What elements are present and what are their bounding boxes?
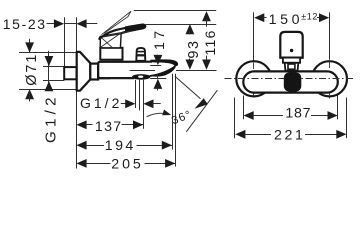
dimension 221 overall width — [234, 98, 236, 139]
dimension O71 escutcheon diameter — [29, 39, 31, 53]
mixer body front view — [243, 71, 337, 92]
dimension 93 height — [186, 24, 195, 34]
aerator extension lines — [135, 80, 137, 108]
dimension 150 plus-minus 12 connection spacing — [253, 12, 255, 61]
svg-text:205: 205 — [111, 156, 143, 172]
lever handle side view — [99, 25, 145, 39]
svg-text:15-23: 15-23 — [3, 16, 47, 32]
lever knob front view — [284, 73, 302, 92]
spout underside — [149, 75, 154, 78]
center lines vertical — [253, 63, 255, 99]
svg-text:G1/2: G1/2 — [80, 95, 122, 111]
svg-text:±12: ±12 — [301, 11, 318, 21]
svg-text:221: 221 — [274, 127, 305, 143]
body neck — [90, 64, 98, 80]
dimension 15-23 leader and arrows — [47, 23, 56, 25]
cartridge cap — [100, 48, 122, 60]
aerator — [132, 74, 150, 80]
svg-text:187: 187 — [285, 106, 311, 122]
svg-text:Ø71: Ø71 — [24, 53, 40, 86]
svg-text:150: 150 — [269, 12, 303, 28]
svg-text:137: 137 — [95, 119, 123, 135]
centerline body axis — [99, 70, 155, 72]
angle 36 degrees spray direction — [175, 76, 201, 99]
svg-text:G1/2: G1/2 — [43, 93, 60, 143]
svg-text:116: 116 — [203, 29, 219, 55]
lever pivot block — [100, 33, 121, 48]
dimension 205 overall depth — [76, 159, 86, 168]
svg-text:17: 17 — [152, 27, 168, 50]
extension lines wall / escutcheon face — [64, 23, 76, 25]
dimension 137 spout reach — [76, 120, 86, 129]
extension lines 93 and 116 levels — [134, 10, 216, 12]
escutcheon circles front view — [236, 61, 271, 96]
spout tip extension lines — [172, 74, 174, 150]
handle front view — [280, 32, 302, 58]
dimension 116 height — [202, 11, 211, 21]
S-union wall stub — [64, 67, 76, 79]
spout head — [150, 59, 178, 66]
diverter knob — [136, 48, 145, 61]
dimension 194 — [76, 141, 86, 150]
svg-text:93: 93 — [186, 39, 202, 58]
centerline horizontal front view — [225, 78, 355, 80]
dimension G1/2 wall connection — [48, 51, 50, 91]
svg-text:194: 194 — [105, 138, 136, 154]
raised lever projection lines — [102, 11, 132, 35]
dimension 187 body width — [243, 96, 245, 120]
escutcheon cone side view — [77, 52, 91, 91]
mixer body side view — [98, 62, 152, 78]
